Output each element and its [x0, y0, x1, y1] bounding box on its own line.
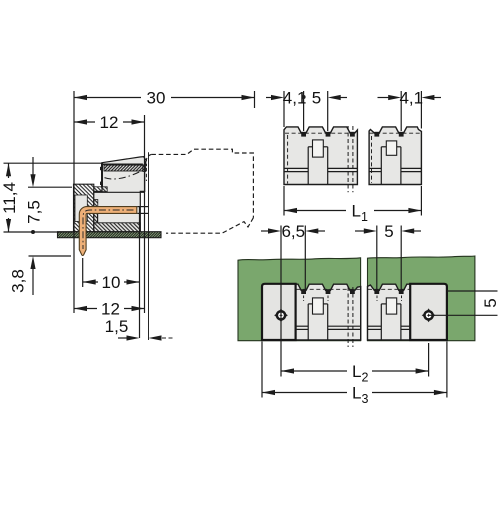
svg-text:5: 5: [312, 89, 321, 108]
green pcb right block: [368, 256, 475, 341]
break dashed centerlines bottom: [347, 287, 349, 347]
dim 7.5: [32, 157, 34, 175]
datum line: [4, 231, 74, 233]
metal clamp hatched band: [104, 165, 143, 171]
svg-text:12: 12: [101, 300, 120, 319]
towers bottom view: [307, 304, 309, 340]
dashed verticals near edges: [287, 135, 289, 184]
dim 12 bottom: [74, 308, 145, 310]
hatch block above pin: [94, 200, 98, 207]
ext line pin center: [82, 258, 84, 287]
tower left module: [307, 147, 309, 185]
ext line pin tip: [139, 207, 141, 338]
pins bottom view: [301, 289, 306, 294]
tower right module: [380, 147, 382, 185]
dim 30: [74, 97, 255, 99]
dim 5 right vertical: [447, 290, 498, 292]
svg-text:7,5: 7,5: [25, 200, 44, 224]
front body left segment: [284, 127, 357, 185]
hatch band next to flange top: [94, 187, 107, 192]
ext line top 11.4: [4, 162, 102, 164]
dim 5 bottom: [355, 230, 364, 232]
ext lines front top: [283, 91, 285, 127]
spring phantom dash-dot curve: [105, 170, 143, 179]
ext line 7.5: [28, 186, 72, 188]
bottom body pin area left: [296, 284, 361, 340]
plug face line: [148, 152, 150, 340]
svg-text:5: 5: [481, 298, 500, 307]
dashed line across bottom view: [297, 288, 361, 290]
latch tip hatched: [143, 161, 146, 171]
mating plug dashed outline top: [151, 149, 253, 218]
step edge lines: [97, 213, 99, 222]
left end plate: [262, 284, 296, 340]
ext line 30 right: [254, 91, 256, 108]
right end plate: [410, 284, 447, 340]
mating plug dashed hook at latch: [146, 154, 151, 166]
green pcb left block: [238, 258, 361, 341]
dim 10: [83, 281, 140, 283]
header body side section: flange hatched: [74, 184, 94, 232]
pin tip edge lines: [137, 206, 148, 208]
dim 4.1 right: [378, 97, 389, 99]
svg-text:10: 10: [102, 273, 121, 292]
svg-text:12: 12: [100, 113, 119, 132]
mating plug dashed outline bottom: [166, 218, 253, 234]
front body right segment: [369, 127, 421, 185]
ext line body right: [144, 115, 146, 313]
solder pin bent 90deg: [79, 207, 137, 256]
break dashed centerlines front: [347, 126, 349, 192]
dim L1: [283, 186, 285, 216]
small dashes under pins: [303, 296, 305, 302]
dim 6.5: [261, 230, 269, 232]
svg-text:11,4: 11,4: [0, 182, 19, 214]
bottom hatched wall: [94, 223, 141, 232]
svg-text:3,8: 3,8: [9, 269, 28, 293]
pcb cross-section strip: [58, 232, 162, 238]
dim L2: [428, 343, 430, 377]
screw right: [422, 308, 436, 322]
latch thick left edge: [101, 163, 103, 188]
latch channel top line: [101, 163, 143, 165]
svg-text:4,1: 4,1: [399, 89, 423, 108]
flange notch gray: [75, 195, 87, 222]
dim 1.5: [118, 337, 127, 339]
dim 4.1 left: [266, 97, 273, 99]
ext lines through green: [280, 226, 282, 377]
svg-text:6,5: 6,5: [281, 222, 305, 241]
svg-text:30: 30: [147, 89, 166, 108]
hatch block under pin: [94, 213, 98, 222]
dim L3: [261, 342, 263, 398]
dim 12 top: [74, 121, 145, 123]
double lines bottom view: [296, 325, 309, 327]
dim 3.8: [29, 255, 72, 257]
dim 11.4: [8, 163, 10, 178]
ext line body left: [73, 91, 75, 313]
double lines front: [284, 167, 308, 169]
pin centerline dash-dot: [83, 210, 134, 249]
svg-text:1,5: 1,5: [105, 317, 129, 336]
datum dot: [31, 230, 35, 234]
pins front: [301, 132, 306, 137]
bottom body pin area right: [368, 284, 411, 340]
main body gray polygon: [94, 157, 146, 232]
dashed line across front: [285, 132, 357, 134]
svg-text:5: 5: [384, 222, 393, 241]
body mid line: [94, 191, 145, 193]
screw left: [274, 308, 288, 322]
